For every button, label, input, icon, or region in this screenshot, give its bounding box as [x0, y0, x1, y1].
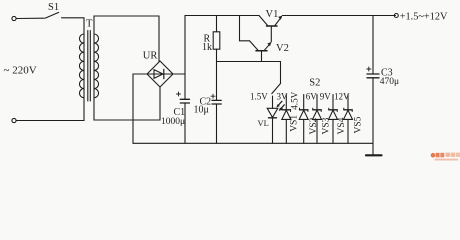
zener VS2: [299, 95, 308, 144]
transistor V2 collector wire from rail: [240, 16, 250, 41]
wire secondary bottom to bridge bottom corner: [94, 87, 160, 120]
svg-text:VS2: VS2: [309, 117, 319, 134]
bridge rectifier UR diamond: [147, 61, 173, 87]
LED VL: [267, 96, 284, 143]
transformer T secondary winding: [93, 34, 95, 98]
wire secondary top to bridge top corner: [94, 16, 159, 61]
svg-text:12V: 12V: [334, 92, 350, 102]
svg-text:470μ: 470μ: [380, 77, 399, 87]
terminal AC bottom-left: [12, 118, 16, 122]
svg-text:1000μ: 1000μ: [161, 117, 185, 127]
watermark: [431, 153, 460, 161]
svg-text:VS4: VS4: [337, 117, 347, 134]
bottom rail: [133, 142, 373, 144]
svg-text:1k: 1k: [202, 42, 212, 53]
svg-text:3V: 3V: [277, 92, 289, 102]
output terminal: [394, 14, 398, 18]
top positive rail (right of V1): [282, 15, 395, 17]
svg-text:T: T: [86, 19, 93, 30]
transformer T primary winding: [83, 34, 85, 98]
svg-text:V1: V1: [266, 9, 279, 20]
zener VS4: [329, 95, 338, 144]
wire primary bottom to AC terminal: [16, 98, 84, 121]
capacitor C3: [367, 16, 379, 144]
transistor V2: [250, 41, 272, 62]
capacitor C1: [177, 92, 190, 103]
zener VS1: [282, 95, 291, 144]
svg-text:6V: 6V: [306, 92, 318, 102]
svg-text:4.5V: 4.5V: [290, 91, 300, 109]
plus output riser / C1 upper wire: [184, 16, 186, 100]
terminal AC top-left: [12, 16, 16, 20]
zener VS5: [344, 95, 353, 144]
switch S2 arm: [272, 84, 281, 94]
svg-text:VS5: VS5: [353, 116, 363, 133]
svg-text:+1.5~+12V: +1.5~+12V: [400, 11, 448, 22]
switch S2 pole wire: [280, 62, 282, 84]
resistor R 1k: [213, 16, 220, 62]
wire bridge plus (right corner) to C1 node: [173, 73, 185, 75]
C1 lower wire: [184, 103, 186, 143]
capacitor C2: [211, 62, 221, 144]
zener VS3: [313, 95, 322, 144]
node line from R bottom to S2 pole: [217, 61, 281, 63]
svg-text:VS3: VS3: [321, 117, 331, 134]
svg-text:VS1: VS1: [289, 115, 299, 132]
svg-text:S2: S2: [309, 78, 320, 89]
svg-text:1.5V: 1.5V: [250, 92, 268, 102]
wire S1 to transformer primary: [62, 18, 85, 34]
transistor V1: [259, 16, 282, 43]
switch S1: [45, 12, 59, 18]
svg-text:UR: UR: [143, 51, 158, 62]
ground: [366, 143, 382, 155]
svg-text:S1: S1: [48, 2, 59, 13]
wire bridge minus (left corner) to bottom rail: [133, 74, 147, 143]
svg-text:V2: V2: [276, 43, 289, 54]
svg-text:VL: VL: [258, 118, 269, 128]
svg-text:9V: 9V: [320, 92, 332, 102]
transformer core: [87, 31, 89, 102]
bridge internal diode: [149, 69, 172, 78]
top positive rail (left of V1): [185, 15, 259, 17]
wire terminal to S1: [16, 17, 44, 19]
svg-text:~ 220V: ~ 220V: [4, 65, 37, 77]
svg-text:10μ: 10μ: [194, 104, 209, 115]
